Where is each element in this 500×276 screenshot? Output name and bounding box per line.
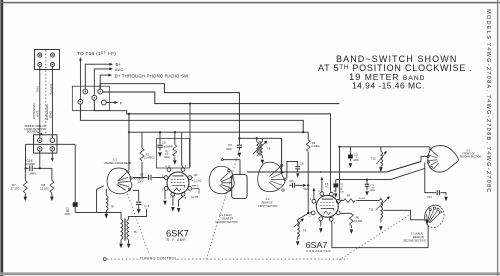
terminal strip TB1: [35, 50, 60, 70]
svg-text:51,000: 51,000: [354, 219, 362, 223]
wire into shield can: [223, 160, 240, 175]
svg-text:AC: AC: [325, 186, 329, 189]
node junction C16 left: [25, 167, 27, 169]
wire R4 to T9: [298, 185, 309, 219]
resistor R1: [140, 132, 155, 177]
svg-text:T5: T5: [133, 230, 137, 234]
capacitor C13: [365, 180, 376, 192]
coil T11: [369, 196, 390, 222]
svg-text:800MMF: 800MMF: [164, 146, 174, 148]
wire V2 pin3 arrow: [313, 190, 315, 199]
svg-text:BLACK: BLACK: [49, 84, 53, 95]
pin numbers V2: [309, 191, 343, 225]
wire pin8 ground: [179, 196, 184, 206]
svg-text:T11: T11: [369, 208, 374, 212]
capacitor C4: [133, 173, 164, 184]
svg-text:SECOND SECTION: SECOND SECTION: [403, 239, 426, 242]
node junction C6: [238, 137, 240, 139]
resistor R6: [340, 213, 363, 228]
interconnect socket X1: [72, 86, 109, 110]
ground C12: [334, 193, 337, 197]
capacitor C11: [348, 147, 359, 162]
svg-text:TO T16 (1ST I-F): TO T16 (1ST I-F): [77, 51, 116, 56]
ground C6: [238, 153, 242, 158]
pin numbers V1: [162, 166, 187, 200]
dashed link D3 to S2 rear half: [339, 214, 411, 260]
svg-text:T8: T8: [267, 147, 271, 151]
svg-text:SECOND SECTION: SECOND SECTION: [215, 221, 238, 224]
wire external antenna lead TAN: [39, 67, 41, 138]
wire wafer to C14: [425, 163, 446, 196]
ground C11: [349, 163, 353, 168]
ground V1 pin8: [177, 208, 181, 213]
svg-text:C10: C10: [289, 180, 294, 183]
capacitor C12: [333, 180, 344, 194]
wire screen drop: [338, 147, 340, 200]
svg-text:GND.: GND.: [49, 110, 53, 118]
transformer T5 primary/secondary (lower): [121, 209, 147, 244]
node junction C5: [159, 131, 161, 133]
node junction osc grid: [307, 212, 309, 214]
node junction T8: [256, 137, 258, 139]
capacitor C9: [287, 161, 304, 178]
svg-text:(1 MEG): (1 MEG): [144, 156, 154, 160]
svg-text:SOCKET: SOCKET: [27, 130, 38, 134]
svg-text:MMF: MMF: [370, 190, 376, 192]
capacitor C5: [157, 132, 173, 150]
wire pin8 drop: [330, 114, 332, 192]
wire wafer contact down to bus: [427, 223, 428, 248]
wire loop return bus: [26, 144, 76, 168]
loop antenna socket X2: [34, 135, 58, 153]
svg-text:AVC: AVC: [115, 68, 123, 72]
switch S2 front of second section: [427, 146, 458, 173]
wire grid drop to V1: [189, 104, 191, 167]
svg-text:140V: 140V: [29, 172, 36, 176]
wire V2 cathode ground: [320, 221, 322, 227]
wire pin6 stub: [192, 178, 199, 194]
svg-text:400V: 400V: [65, 213, 71, 216]
svg-text:CONVERTER: CONVERTER: [306, 249, 331, 253]
svg-text:C 3: C 3: [144, 204, 149, 208]
svg-text:S 1: S 1: [113, 158, 118, 162]
svg-text:B+ THROUGH PHONO RADIO SW.: B+ THROUGH PHONO RADIO SW.: [115, 73, 190, 78]
label 4,5 AC: [325, 183, 329, 189]
capacitor C14: [427, 190, 440, 199]
ground V1 pin1: [171, 207, 175, 212]
wire T11 to rear wafer: [383, 210, 425, 220]
shield box C5 R2: [157, 139, 190, 169]
switch S1 wafer (viewed from rear): [107, 168, 132, 194]
svg-text:47,000: 47,000: [358, 198, 365, 200]
resistor R7: [11, 168, 28, 196]
tuning control dashed shaft: [107, 258, 348, 260]
coil T9: [294, 218, 307, 240]
ground V2 cathode: [319, 228, 323, 233]
wire bus heater: [80, 104, 303, 132]
svg-text:500V: 500V: [304, 188, 310, 191]
svg-text:470MMF: 470MMF: [26, 163, 36, 166]
svg-text:TUNING CONTROL: TUNING CONTROL: [140, 257, 177, 261]
svg-text:C4: C4: [140, 173, 144, 177]
svg-text:100: 100: [193, 174, 198, 177]
wire socket pin to bus: [39, 151, 41, 168]
label S2 half rear second section: [215, 214, 238, 224]
capacitor C16: [26, 159, 52, 176]
ground V1 cathode: [163, 201, 167, 206]
tube V1 6SK7: [164, 168, 192, 197]
wire plate bus to wafer: [339, 146, 429, 148]
svg-text:600V: 600V: [339, 191, 345, 193]
ground T9: [296, 241, 300, 246]
svg-text:T9: T9: [303, 228, 307, 232]
svg-text:F: F: [320, 170, 322, 174]
ground T5 primary: [119, 244, 123, 249]
svg-text:27,100: 27,100: [11, 186, 20, 190]
wire bus plate: [129, 114, 308, 170]
node junction osc bus: [281, 171, 283, 173]
shield can oscillator: [232, 175, 247, 199]
label S1: [104, 158, 132, 166]
svg-text:C9: C9: [300, 162, 304, 166]
capacitor C1: [65, 202, 78, 216]
ground T5 secondary: [127, 244, 131, 249]
svg-text:MODELS 74WG-2708A, 74WG-2708B,: MODELS 74WG-2708A, 74WG-2708B, 74WG-2708…: [485, 9, 491, 194]
ground R7: [24, 197, 28, 202]
ground R2: [173, 160, 177, 165]
ground C13: [365, 191, 368, 195]
wire F arrow from socket: [106, 102, 115, 104]
label S2 front second section: [460, 149, 482, 158]
coil T5: [106, 189, 114, 214]
note model numbers (rotated): [485, 9, 491, 194]
dashed link D1 to S1: [128, 194, 151, 259]
svg-text:14.94 -15.46 MC.: 14.94 -15.46 MC.: [352, 80, 425, 90]
wire antenna line down left: [75, 144, 121, 212]
svg-text:T5: T5: [110, 205, 114, 209]
wire screen to V1: [182, 132, 183, 167]
wire pin1 ground: [172, 196, 174, 205]
svg-text:200V: 200V: [138, 180, 144, 183]
wire B+ arrow: [85, 64, 110, 89]
svg-text:R. F. AMP.: R. F. AMP.: [167, 238, 187, 242]
wire osc branch: [239, 138, 281, 172]
node centerline (dashed): [45, 50, 47, 135]
svg-text:R6: R6: [356, 215, 360, 219]
resistor R2: [164, 132, 176, 160]
svg-text:22,100: 22,100: [40, 186, 49, 190]
label S2 rear first section: [258, 198, 277, 208]
capacitor C10: [289, 180, 310, 191]
ground T11: [379, 226, 383, 231]
label S2 half rear second section right: [403, 233, 426, 243]
node tuning control knob: [103, 258, 106, 261]
ground C3: [137, 209, 141, 214]
svg-text:TAN: TAN: [36, 86, 40, 92]
ground C14: [444, 197, 448, 202]
svg-text:C5: C5: [162, 141, 166, 145]
wire to T16: [79, 60, 81, 100]
wire IF bus: [336, 169, 425, 180]
transformer T8: [253, 138, 271, 158]
svg-text:C6: C6: [228, 143, 232, 147]
svg-text:ANT.: ANT.: [35, 110, 39, 117]
ground T12: [379, 167, 383, 172]
svg-text:R4: R4: [312, 141, 316, 145]
wire diag hook to wafer: [421, 156, 427, 161]
svg-text:R5: R5: [347, 193, 351, 197]
wire bus phono down: [94, 100, 330, 114]
wire external ground lead BLACK: [52, 67, 54, 138]
switch S2 (half) rear of second section (right): [425, 205, 444, 227]
title note band-switch position: [318, 54, 473, 90]
switch S2 (half) rear of second section (left): [209, 166, 234, 194]
capacitor C6: [226, 138, 242, 151]
coil T12: [371, 147, 387, 168]
svg-text:600V: 600V: [226, 148, 232, 151]
tube V2 6SA7: [311, 192, 340, 221]
note wiring side of loop antenna socket: [25, 124, 47, 134]
dashed link D2 to S2 second section: [207, 149, 240, 260]
resistor R5: [340, 193, 381, 202]
svg-text:B+: B+: [116, 62, 122, 67]
wire wafer to T5: [97, 186, 104, 213]
wire bus B+ stepped: [100, 84, 239, 139]
resistor R4: [306, 132, 319, 185]
node junctions on buses: [189, 103, 191, 105]
pin label 6 SUP: [191, 174, 202, 199]
ground C9: [296, 173, 299, 177]
wire V2 osc grid stub: [308, 212, 311, 214]
svg-text:MEG: MEG: [164, 156, 170, 159]
svg-text:8,2 TB: 8,2 TB: [191, 196, 198, 199]
node junction C13: [366, 179, 368, 181]
svg-text:C14: C14: [427, 195, 433, 199]
ground T5: [105, 214, 109, 219]
svg-text:6SK7: 6SK7: [166, 228, 189, 238]
svg-text:VIEWED FROM REAR: VIEWED FROM REAR: [104, 161, 132, 165]
wire socket pin arrow: [51, 151, 53, 159]
capacitor C3: [133, 190, 149, 209]
svg-text:400V: 400V: [353, 159, 359, 162]
ground C5: [158, 152, 162, 157]
wire AVC arrow: [94, 69, 110, 96]
ground R6: [350, 229, 354, 234]
node junction antenna pin: [39, 167, 41, 169]
node junction R4 C10: [307, 184, 309, 186]
node junction C11: [338, 146, 340, 148]
svg-text:FIRST SECTION: FIRST SECTION: [258, 205, 277, 208]
resistor R8: [40, 168, 54, 196]
pin 4 stub: [168, 165, 170, 167]
wire cathode ground: [164, 190, 166, 199]
ground R8: [50, 197, 54, 202]
svg-text:T12: T12: [371, 157, 377, 161]
wire B+ through phono arrow: [100, 75, 109, 89]
ground T8: [261, 160, 265, 165]
switch S2 rear of first section: [258, 162, 287, 192]
wire V2 signal grid arrow: [321, 180, 323, 192]
svg-text:1 MEG: 1 MEG: [311, 144, 319, 148]
svg-text:SECOND SECTION: SECOND SECTION: [460, 156, 482, 159]
wire mixer bus: [247, 162, 421, 173]
wire bus AVC: [103, 92, 340, 104]
wire V2 pin8 to wafer: [331, 221, 428, 248]
svg-text:1, 2 AC: 1, 2 AC: [194, 180, 202, 183]
node junction R2: [174, 131, 176, 133]
